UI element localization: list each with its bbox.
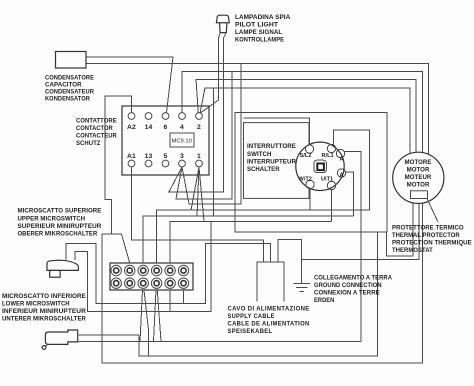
contactor MC9.10 label box xyxy=(170,133,194,147)
wire col4 bottom pair xyxy=(154,290,157,342)
wire branch to bottom line and motor bottom xyxy=(102,203,423,363)
svg-text:GROUND CONNECTION: GROUND CONNECTION xyxy=(314,282,382,289)
supply cable body xyxy=(257,262,284,302)
svg-text:THERMOSTAT: THERMOSTAT xyxy=(392,247,433,254)
svg-text:W/T2: W/T2 xyxy=(299,177,312,183)
wire col6 drop xyxy=(183,290,185,303)
svg-text:LAMPADINA SPIA: LAMPADINA SPIA xyxy=(235,14,291,21)
leader line protector label xyxy=(427,199,438,223)
label lower microswitch xyxy=(2,293,86,323)
svg-text:OBERER MIKROSCHALTER: OBERER MIKROSCHALTER xyxy=(18,231,98,238)
svg-text:COLLEGAMENTO A TERRA: COLLEGAMENTO A TERRA xyxy=(314,275,393,282)
svg-text:U\T1: U\T1 xyxy=(321,177,333,183)
svg-text:14: 14 xyxy=(145,124,153,131)
wire A lower to f5 xyxy=(346,172,354,216)
svg-text:PROTECTION THERMIQUE: PROTECTION THERMIQUE xyxy=(392,240,472,247)
wire W/T2 drop to f4 xyxy=(309,189,311,211)
wire protector left to enclosure corner xyxy=(387,199,414,257)
svg-text:SCHALTER: SCHALTER xyxy=(247,166,280,173)
wire capacitor A to terminal 6 xyxy=(86,57,173,113)
wire A upper to 361 riser down to wB xyxy=(344,152,362,342)
svg-text:MOTEUR: MOTEUR xyxy=(405,174,432,181)
svg-text:ERDEN: ERDEN xyxy=(314,297,334,304)
wire t1 diag to f4 xyxy=(191,167,199,210)
svg-text:MC9.10: MC9.10 xyxy=(172,139,192,145)
svg-text:A2: A2 xyxy=(127,124,136,131)
wire n3 motor to terminal 2 xyxy=(196,80,416,153)
svg-text:A: A xyxy=(340,157,344,163)
microswitch lower MS2 xyxy=(42,330,78,349)
svg-text:MICROSCATTO INFERIORE: MICROSCATTO INFERIORE xyxy=(2,293,86,300)
label pilot light xyxy=(235,14,291,44)
svg-text:4: 4 xyxy=(180,124,184,131)
label switch xyxy=(247,143,297,173)
svg-text:3: 3 xyxy=(180,153,184,160)
wire msw lower A to protector xyxy=(79,232,378,356)
svg-text:SWITCH: SWITCH xyxy=(247,151,272,158)
ground symbol xyxy=(293,283,310,291)
svg-text:13: 13 xyxy=(145,153,153,160)
wire col3 bottom pair xyxy=(140,290,143,342)
svg-text:THERMAL PROTECTOR: THERMAL PROTECTOR xyxy=(392,232,460,239)
capacitor C xyxy=(56,52,87,69)
wire protector 2 to ground stem xyxy=(302,199,420,260)
wire msw lower B long xyxy=(79,341,362,343)
switch terminal labels xyxy=(299,153,344,183)
svg-text:SUPERIEUR MINIRUPTEUR: SUPERIEUR MINIRUPTEUR xyxy=(18,223,102,230)
wire n1 capacitor to motor top xyxy=(86,64,429,155)
switch rotary S1 xyxy=(296,142,346,190)
svg-text:CAVO DI ALIMENTAZIONE: CAVO DI ALIMENTAZIONE xyxy=(228,306,310,313)
svg-text:LAMPE SIGNAL: LAMPE SIGNAL xyxy=(235,29,282,36)
svg-text:LOWER MICROSWITCH: LOWER MICROSWITCH xyxy=(2,301,70,308)
wire msw upper 1 to supply mid xyxy=(66,243,271,303)
wire ground to supply right xyxy=(278,240,302,284)
svg-text:CONTACTEUR: CONTACTEUR xyxy=(76,133,117,140)
svg-text:CONDENSATORE: CONDENSATORE xyxy=(45,75,94,82)
svg-text:MICROSCATTO SUPERIORE: MICROSCATTO SUPERIORE xyxy=(18,208,102,215)
svg-text:UPPER MICROSWITCH: UPPER MICROSWITCH xyxy=(18,216,86,223)
terminal block TB body xyxy=(110,263,193,290)
svg-text:PROTETTORE TERMICO: PROTETTORE TERMICO xyxy=(392,225,464,232)
contactor K1 box xyxy=(122,106,209,175)
wire f4 col4 to R/L1 xyxy=(157,130,370,263)
wire pilot left leg to terminal 2 xyxy=(200,42,219,113)
motor M xyxy=(393,152,444,203)
svg-text:SPEISEKABEL: SPEISEKABEL xyxy=(228,328,273,335)
contactor bottom terminal labels xyxy=(127,153,201,160)
contactor top terminals xyxy=(128,113,202,120)
svg-text:6: 6 xyxy=(164,124,168,131)
label capacitor xyxy=(45,75,95,103)
svg-text:MOTOR: MOTOR xyxy=(407,167,430,174)
svg-text:CONDENSATEUR: CONDENSATEUR xyxy=(45,89,95,96)
wire f2 terminal 3 to n2 xyxy=(176,72,232,199)
svg-text:1: 1 xyxy=(197,153,201,160)
svg-text:A1: A1 xyxy=(127,153,136,160)
label thermal protector xyxy=(392,225,472,255)
wire t1 diag to f6 xyxy=(199,167,204,221)
svg-text:CONNEXION A TERRE: CONNEXION A TERRE xyxy=(314,290,380,297)
svg-text:MOTORE: MOTORE xyxy=(405,159,432,166)
svg-text:CONTACTOR: CONTACTOR xyxy=(76,125,113,132)
contactor top terminal labels xyxy=(127,124,201,131)
enclosure box around switch xyxy=(235,113,387,232)
wire f6 col5 to U/T1 xyxy=(170,221,331,263)
wire f5 col3 long xyxy=(143,216,354,263)
svg-text:5: 5 xyxy=(164,153,168,160)
thermal protector TP xyxy=(411,191,428,199)
label ground xyxy=(314,275,393,305)
label upper microswitch xyxy=(18,208,102,238)
svg-text:S/L2: S/L2 xyxy=(300,153,312,159)
label contactor xyxy=(76,118,117,148)
svg-text:PILOT LIGHT: PILOT LIGHT xyxy=(235,22,278,29)
wire U/T1 drop to f5 xyxy=(331,190,333,222)
wire A1 to supply left xyxy=(132,167,264,262)
pilot light PL xyxy=(216,15,229,44)
wire S/L2 up left xyxy=(244,118,310,145)
wire v1 riser n4 to f5 xyxy=(213,88,215,216)
terminal block circles xyxy=(111,265,189,288)
svg-text:A: A xyxy=(340,173,344,179)
wire msw upper 2 to f6 xyxy=(75,221,211,311)
svg-text:KONTROLLAMPE: KONTROLLAMPE xyxy=(235,37,284,44)
contactor bottom terminals xyxy=(128,160,202,167)
microswitch upper MS1 xyxy=(47,260,78,277)
label supply cable xyxy=(228,306,310,336)
svg-text:CONTATTORE: CONTATTORE xyxy=(76,118,117,125)
wire f1 pilot right leg to terminal 3 xyxy=(169,42,224,192)
svg-text:INFERIEUR MINIRUPTEUR: INFERIEUR MINIRUPTEUR xyxy=(2,308,86,315)
svg-text:INTERRUTTORE: INTERRUTTORE xyxy=(247,143,296,150)
svg-text:2: 2 xyxy=(197,124,201,131)
switch box xyxy=(244,123,310,199)
wire n2 motor to terminal 4 xyxy=(182,72,422,153)
svg-text:SUPPLY CABLE: SUPPLY CABLE xyxy=(228,313,275,320)
wire n4 motor to terminal 2 xyxy=(200,88,410,154)
svg-text:UNTERER MIKROSCHALTER: UNTERER MIKROSCHALTER xyxy=(2,316,86,323)
svg-text:CABLE DE ALIMENTATION: CABLE DE ALIMENTATION xyxy=(228,321,310,328)
svg-text:MOTOR: MOTOR xyxy=(407,182,430,189)
wire A2 down left with jogs xyxy=(105,96,132,234)
wire branch diagonal to block col2 xyxy=(112,234,130,263)
wire col5 drop xyxy=(169,290,171,312)
wire t1 diag to f5 xyxy=(197,167,199,216)
wire f3 terminal 3 to n1 xyxy=(182,64,241,204)
svg-text:R/L1: R/L1 xyxy=(322,153,334,159)
svg-text:SCHUTZ: SCHUTZ xyxy=(76,140,101,147)
svg-text:CAPACITOR: CAPACITOR xyxy=(45,82,82,89)
svg-text:INTERRUPTEUR: INTERRUPTEUR xyxy=(247,159,297,166)
svg-text:KONDENSATOR: KONDENSATOR xyxy=(45,96,90,103)
